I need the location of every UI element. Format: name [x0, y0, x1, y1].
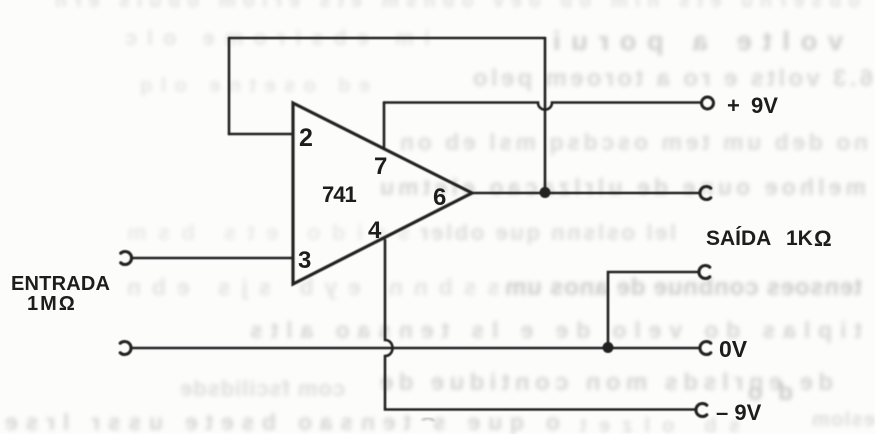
wire feedback right vertical to output node [544, 38, 547, 193]
svg-text:tensoes conbnue de anos um: tensoes conbnue de anos um [505, 274, 862, 301]
terminal input bottom [120, 342, 131, 355]
svg-text:7: 7 [374, 153, 387, 180]
wire output pin6 [472, 192, 699, 195]
node 0V junction [603, 342, 614, 353]
svg-text:4: 4 [368, 217, 382, 244]
svg-text:2: 2 [299, 124, 313, 152]
circuit ink [120, 38, 713, 417]
terminal load top [699, 266, 710, 279]
svg-text:ed osetne olq: ed osetne olq [140, 75, 370, 97]
svg-text:3: 3 [298, 247, 311, 274]
node output junction [540, 187, 551, 198]
terminal input top [121, 251, 132, 264]
wire +9V rail with hop over feedback [384, 103, 701, 110]
wire pin4 to -9V with hop over 0V [385, 240, 695, 410]
svg-text:0V: 0V [719, 336, 748, 362]
terminal 0V [700, 342, 711, 355]
wire load top [608, 272, 698, 347]
svg-text:tiplas do velo de e ls tensao: tiplas do velo de e ls tensao alts [250, 317, 862, 343]
wire feedback left vertical [228, 38, 231, 134]
svg-text:ssbnn eyb sjs ebn: ssbnn eyb sjs ebn [127, 274, 500, 300]
svg-text:– 9V: – 9V [716, 400, 762, 425]
svg-text:1K: 1K [786, 227, 813, 250]
svg-text:+ 9V: + 9V [727, 93, 778, 118]
svg-text:1MΩ: 1MΩ [27, 293, 77, 315]
svg-text:SAÍDA: SAÍDA [706, 227, 771, 250]
op-amp U1 741 triangle [293, 103, 472, 284]
svg-text:com fscilidsde: com fscilidsde [180, 376, 345, 401]
svg-text:de enrlsds mon contidue de: de enrlsds mon contidue de [380, 369, 833, 396]
svg-text:6.3 volts e ro a toroem pelo: 6.3 volts e ro a toroem pelo [473, 65, 873, 92]
svg-text:ENTRADA: ENTRADA [11, 273, 110, 295]
wire 0V line [132, 347, 699, 350]
terminal output [700, 187, 711, 200]
svg-text:melhoe oune de ulrlzacao eletm: melhoe oune de ulrlzacao eletmu [380, 174, 866, 200]
svg-text:Ω: Ω [814, 226, 832, 251]
svg-text:obsernu ets nim ob oev obnsm e: obsernu ets nim ob oev obnsm ets erlom o… [55, 0, 860, 12]
scan smudge under -9V corner (decorative) [422, 418, 434, 421]
terminal +9V circle [702, 97, 714, 109]
terminal -9V [696, 404, 707, 417]
svg-text:volte a porui: volte a porui [553, 26, 843, 56]
wire feedback top [229, 37, 545, 40]
svg-text:741: 741 [322, 182, 356, 207]
svg-text:o que s tensao bsete ussr lrse: o que s tensao bsete ussr lrse [5, 409, 560, 434]
wire pin2 stub [229, 133, 292, 136]
svg-text:no deb um tem oscdsq msl eb on: no deb um tem oscdsq msl eb on [400, 129, 868, 155]
svg-text:eslom: eslom [812, 409, 875, 431]
wire pin7 to V+ rail [383, 103, 386, 148]
svg-text:lel oslsnn que obler: lel oslsnn que obler [420, 220, 676, 245]
wire input top to pin3 [133, 257, 292, 260]
svg-text:6: 6 [433, 184, 446, 211]
